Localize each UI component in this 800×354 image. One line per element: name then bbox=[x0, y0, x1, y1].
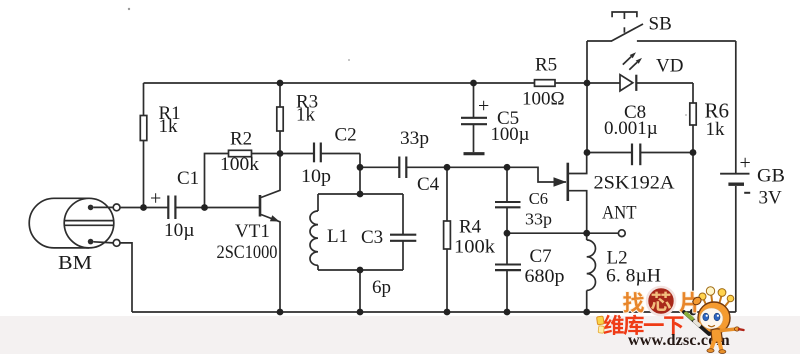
battery GB bbox=[720, 174, 750, 312]
capacitor C7 bbox=[495, 233, 521, 312]
node C1 / R2 / base bbox=[201, 204, 208, 211]
bottom gray band bbox=[0, 316, 800, 354]
node R2 / R3 / collector / C2 bbox=[277, 150, 284, 157]
svg-text:6. 8µH: 6. 8µH bbox=[606, 266, 661, 287]
inductor L1 tank top wire bbox=[318, 193, 403, 195]
resistor R4 bbox=[444, 167, 451, 312]
node R6 wire / ground rail bbox=[690, 309, 697, 316]
wire C4 to gate bbox=[447, 167, 566, 182]
svg-text:1k: 1k bbox=[706, 119, 726, 140]
antenna ANT stub bbox=[587, 230, 625, 237]
node C2-C4 branch bbox=[357, 164, 364, 171]
svg-text:C3: C3 bbox=[361, 227, 383, 248]
capacitor C3 bbox=[390, 194, 416, 270]
node drain / C8 bbox=[584, 149, 591, 156]
wire source row to ANT bbox=[507, 232, 587, 234]
wire BM bottom to rail bbox=[120, 243, 132, 312]
wire tank bottom to ground rail bbox=[359, 270, 361, 312]
watermark bbox=[597, 287, 744, 354]
capacitor C4 bbox=[360, 157, 447, 179]
svg-text:R4: R4 bbox=[459, 217, 482, 238]
svg-text:BM: BM bbox=[58, 252, 92, 274]
svg-text:VT1: VT1 bbox=[235, 221, 270, 242]
svg-text:100k: 100k bbox=[220, 154, 260, 175]
inductor L1 bbox=[310, 194, 318, 270]
node tank top bbox=[357, 191, 364, 198]
svg-text:680p: 680p bbox=[525, 266, 565, 287]
svg-text:L1: L1 bbox=[327, 226, 348, 247]
mascot bbox=[684, 287, 744, 354]
wire top rail right of R5 bbox=[555, 82, 587, 84]
resistor R2 bbox=[205, 150, 281, 207]
svg-text:GB: GB bbox=[757, 166, 785, 187]
node tank / ground rail bbox=[357, 309, 364, 316]
node source / L2 / ANT bbox=[583, 230, 590, 237]
wire BM top to C1 bbox=[120, 207, 144, 209]
capacitor C1 bbox=[144, 196, 261, 220]
svg-text:2SK192A: 2SK192A bbox=[594, 173, 675, 194]
inductor L2 bbox=[587, 233, 596, 312]
FET 2SK192A bbox=[554, 153, 587, 234]
watermark logo 找芯片 bbox=[623, 287, 699, 315]
svg-text:SB: SB bbox=[649, 14, 672, 35]
svg-text:33p: 33p bbox=[525, 210, 552, 229]
node tank bottom bbox=[357, 267, 364, 274]
node C8 / R6 bbox=[690, 149, 697, 156]
svg-text:100k: 100k bbox=[454, 237, 496, 258]
node C4 / R4 bbox=[444, 164, 451, 171]
svg-text:C1: C1 bbox=[177, 168, 199, 189]
resistor R6 bbox=[690, 83, 696, 153]
svg-text:R5: R5 bbox=[535, 55, 557, 76]
wire node x360 vertical bbox=[359, 154, 361, 195]
LED VD bbox=[587, 52, 693, 91]
wire drain node down from top rail bbox=[586, 83, 588, 153]
svg-text:1k: 1k bbox=[296, 105, 316, 126]
svg-text:ANT: ANT bbox=[602, 203, 637, 224]
svg-text:2SC1000: 2SC1000 bbox=[217, 242, 278, 263]
capacitor C2 bbox=[280, 143, 360, 163]
node C6 / C7 / source row bbox=[504, 230, 511, 237]
svg-text:10p: 10p bbox=[301, 166, 331, 187]
capacitor C5 bbox=[461, 83, 487, 154]
svg-text:10µ: 10µ bbox=[164, 220, 195, 241]
svg-text:0.001µ: 0.001µ bbox=[604, 118, 658, 139]
wire bottom rail bbox=[132, 311, 736, 313]
svg-text:C7: C7 bbox=[530, 246, 552, 267]
svg-text:+: + bbox=[478, 95, 489, 117]
transistor VT1 bbox=[260, 154, 280, 313]
node top rail / C5 bbox=[470, 80, 477, 87]
svg-text:1k: 1k bbox=[159, 116, 179, 137]
switch SB bbox=[587, 12, 736, 83]
node top rail / R3 collector bbox=[277, 80, 284, 87]
tank bottom wire bbox=[318, 269, 403, 271]
node L2 / ground rail bbox=[583, 309, 590, 316]
watermark text weiku bbox=[603, 315, 683, 335]
node mic / R1 / C1 bbox=[140, 204, 147, 211]
capacitor C8 bbox=[587, 144, 693, 166]
watermark sparkle bbox=[597, 316, 605, 333]
node R4 / ground rail bbox=[444, 309, 451, 316]
speckle dots bbox=[128, 8, 130, 10]
svg-text:VD: VD bbox=[656, 56, 683, 77]
capacitor C6 bbox=[495, 167, 521, 233]
svg-text:+: + bbox=[740, 152, 751, 174]
node C4 / C6 / gate bbox=[504, 164, 511, 171]
svg-text:3V: 3V bbox=[759, 188, 783, 209]
svg-text:R2: R2 bbox=[230, 129, 252, 150]
svg-text:C4: C4 bbox=[417, 174, 440, 195]
microphone BM bbox=[29, 198, 120, 248]
wire R6 node to bottom rail bbox=[692, 153, 694, 313]
node C7 / ground rail bbox=[504, 309, 511, 316]
resistor R3 bbox=[277, 83, 283, 154]
svg-text:6p: 6p bbox=[372, 277, 391, 298]
wire right rail bbox=[735, 41, 737, 173]
svg-text:33p: 33p bbox=[400, 128, 429, 149]
svg-text:C6: C6 bbox=[529, 189, 548, 208]
svg-text:100Ω: 100Ω bbox=[522, 89, 565, 110]
svg-text:100µ: 100µ bbox=[491, 124, 530, 145]
svg-text:+: + bbox=[150, 188, 161, 210]
resistor R5 bbox=[535, 80, 556, 87]
node top rail / R5-SB-VD-drain bbox=[584, 80, 591, 87]
node emitter / ground rail bbox=[277, 309, 284, 316]
wire top rail left bbox=[144, 82, 535, 84]
svg-text:C2: C2 bbox=[335, 125, 357, 146]
resistor R1 bbox=[140, 83, 147, 208]
